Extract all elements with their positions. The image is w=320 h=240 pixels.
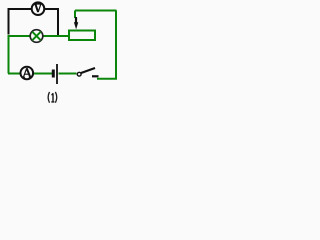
wire: green switch to bottom-right corner and right vertical xyxy=(97,11,116,79)
wire: green left vertical (node between lamp row and bottom row) xyxy=(8,35,10,74)
switch S1 fixed contact xyxy=(92,75,99,77)
wire: green top-right horizontal to rheostat slider xyxy=(75,10,117,12)
rheostat slider arrow xyxy=(74,17,78,29)
ammeter A1 xyxy=(21,67,34,80)
wire: black voltmeter branch top-left xyxy=(9,9,32,35)
battery B1 negative short plate xyxy=(52,70,55,78)
wire: black voltmeter right + down to lamp row junction xyxy=(45,9,59,35)
wire: green slider lead xyxy=(74,11,76,19)
switch S1 lever xyxy=(81,68,95,73)
wire: green lamp left lead xyxy=(8,35,31,37)
label (1) xyxy=(48,92,57,103)
rheostat R1 box xyxy=(69,31,95,41)
wire: green ammeter to battery xyxy=(34,73,53,75)
wire: green lamp right lead to rheostat xyxy=(43,35,69,37)
lamp L1 xyxy=(30,30,43,43)
voltmeter V1 xyxy=(32,2,45,15)
wire: green bottom-left horizontal to ammeter xyxy=(8,73,21,75)
switch S1 pivot xyxy=(77,72,81,76)
wire: green battery to switch xyxy=(59,73,77,75)
battery B1 positive long plate xyxy=(56,64,58,84)
background xyxy=(0,0,125,109)
